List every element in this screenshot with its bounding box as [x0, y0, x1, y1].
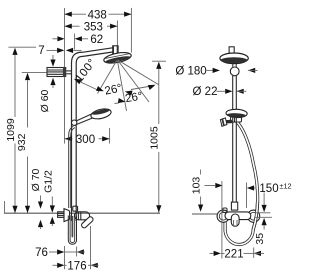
dimension 1099 [5, 47, 36, 213]
dimension 221 [210, 248, 265, 261]
dimension D60 [39, 55, 55, 112]
fan line F3 [118, 60, 149, 102]
svg-text:Ø 60: Ø 60 [39, 89, 51, 112]
mixer left: body [74, 212, 89, 220]
svg-text:176: 176 [67, 261, 86, 273]
svg-text:Ø 70: Ø 70 [30, 168, 42, 191]
fan line F2 [117, 60, 126, 111]
fan line F1 [98, 60, 118, 94]
svg-text:438: 438 [88, 9, 107, 21]
dimension 35 [254, 213, 272, 245]
fan line F4 [118, 60, 159, 85]
hose fold below mixer left [68, 216, 76, 245]
right mixer body [225, 212, 251, 220]
mixer left: lever [81, 216, 94, 229]
hand shower pivot circle [72, 120, 77, 125]
hose left descending [69, 126, 75, 208]
right holder knob [220, 118, 232, 126]
right overhead disc [220, 53, 248, 64]
dimension 300 [65, 128, 110, 146]
right mixer escutcheon right [248, 210, 260, 222]
svg-text:932: 932 [16, 133, 28, 151]
dimension D22 [193, 86, 247, 98]
reference line left [4, 201, 160, 213]
svg-text:221: 221 [224, 249, 243, 261]
extension line x131 (438 right) [130, 8, 132, 53]
svg-text:±12: ±12 [279, 182, 291, 191]
right hand shower head [226, 109, 247, 118]
wall extension line left [64, 8, 66, 144]
extension line x74.6 (62 right) [74, 34, 76, 50]
right reference line [192, 213, 217, 215]
right mixer knob [223, 208, 227, 212]
svg-text:353: 353 [84, 21, 103, 33]
dimension G1/2 [43, 170, 55, 226]
mixer left: escutcheon bell [64, 209, 70, 222]
right holder connector [231, 117, 242, 122]
dimension 76 [35, 247, 85, 260]
mixer left: wall stub [58, 212, 64, 218]
dimension 150 pm 12 [247, 182, 292, 213]
100 degree leader [73, 57, 105, 94]
right hose overlay segment in front of mixer [253, 202, 257, 230]
dimension 62 [53, 34, 104, 46]
svg-text:Ø 180: Ø 180 [175, 65, 206, 77]
wall plate bracket [47, 67, 72, 77]
svg-text:35: 35 [254, 233, 266, 245]
svg-text:Ø 22: Ø 22 [193, 86, 218, 98]
hand shower wand left [76, 107, 112, 124]
right hose [225, 123, 258, 245]
svg-text:7: 7 [38, 45, 44, 57]
riser pipe with top bend and shower arm [72, 48, 113, 206]
dimension D70 [30, 168, 43, 229]
extension line x117 (353 right) [116, 21, 118, 47]
ball joint housing left [113, 46, 118, 56]
extension line x222 [221, 181, 223, 259]
mixer left: pipe fitting knob [73, 206, 78, 211]
dimension D180 [175, 65, 257, 77]
dimension 438 [65, 9, 132, 21]
dimension 932 [16, 72, 47, 213]
label 26 deg second [115, 90, 144, 105]
dimension 353 [65, 21, 118, 33]
dimension 7 [38, 45, 81, 57]
overhead shower disc left [103, 51, 132, 65]
svg-text:300: 300 [76, 134, 95, 146]
svg-text:76: 76 [35, 247, 48, 259]
dimension 1005 [148, 61, 166, 212]
dimension 103 [190, 170, 222, 212]
label 26 deg first [104, 82, 157, 97]
right riser pipe [233, 76, 237, 203]
pipe through mixer left [72, 206, 77, 221]
svg-text:103: 103 [190, 177, 202, 195]
dimension 176 [53, 226, 99, 273]
svg-text:G1/2: G1/2 [43, 170, 55, 193]
right ball joint [230, 64, 239, 76]
svg-text:150: 150 [259, 183, 278, 195]
right mixer lever [231, 214, 239, 226]
right pipe collar [231, 202, 237, 210]
right mixer escutcheon left [217, 210, 229, 222]
svg-text:62: 62 [90, 34, 103, 46]
right figure: top stub [229, 47, 234, 53]
svg-text:1005: 1005 [148, 126, 160, 150]
